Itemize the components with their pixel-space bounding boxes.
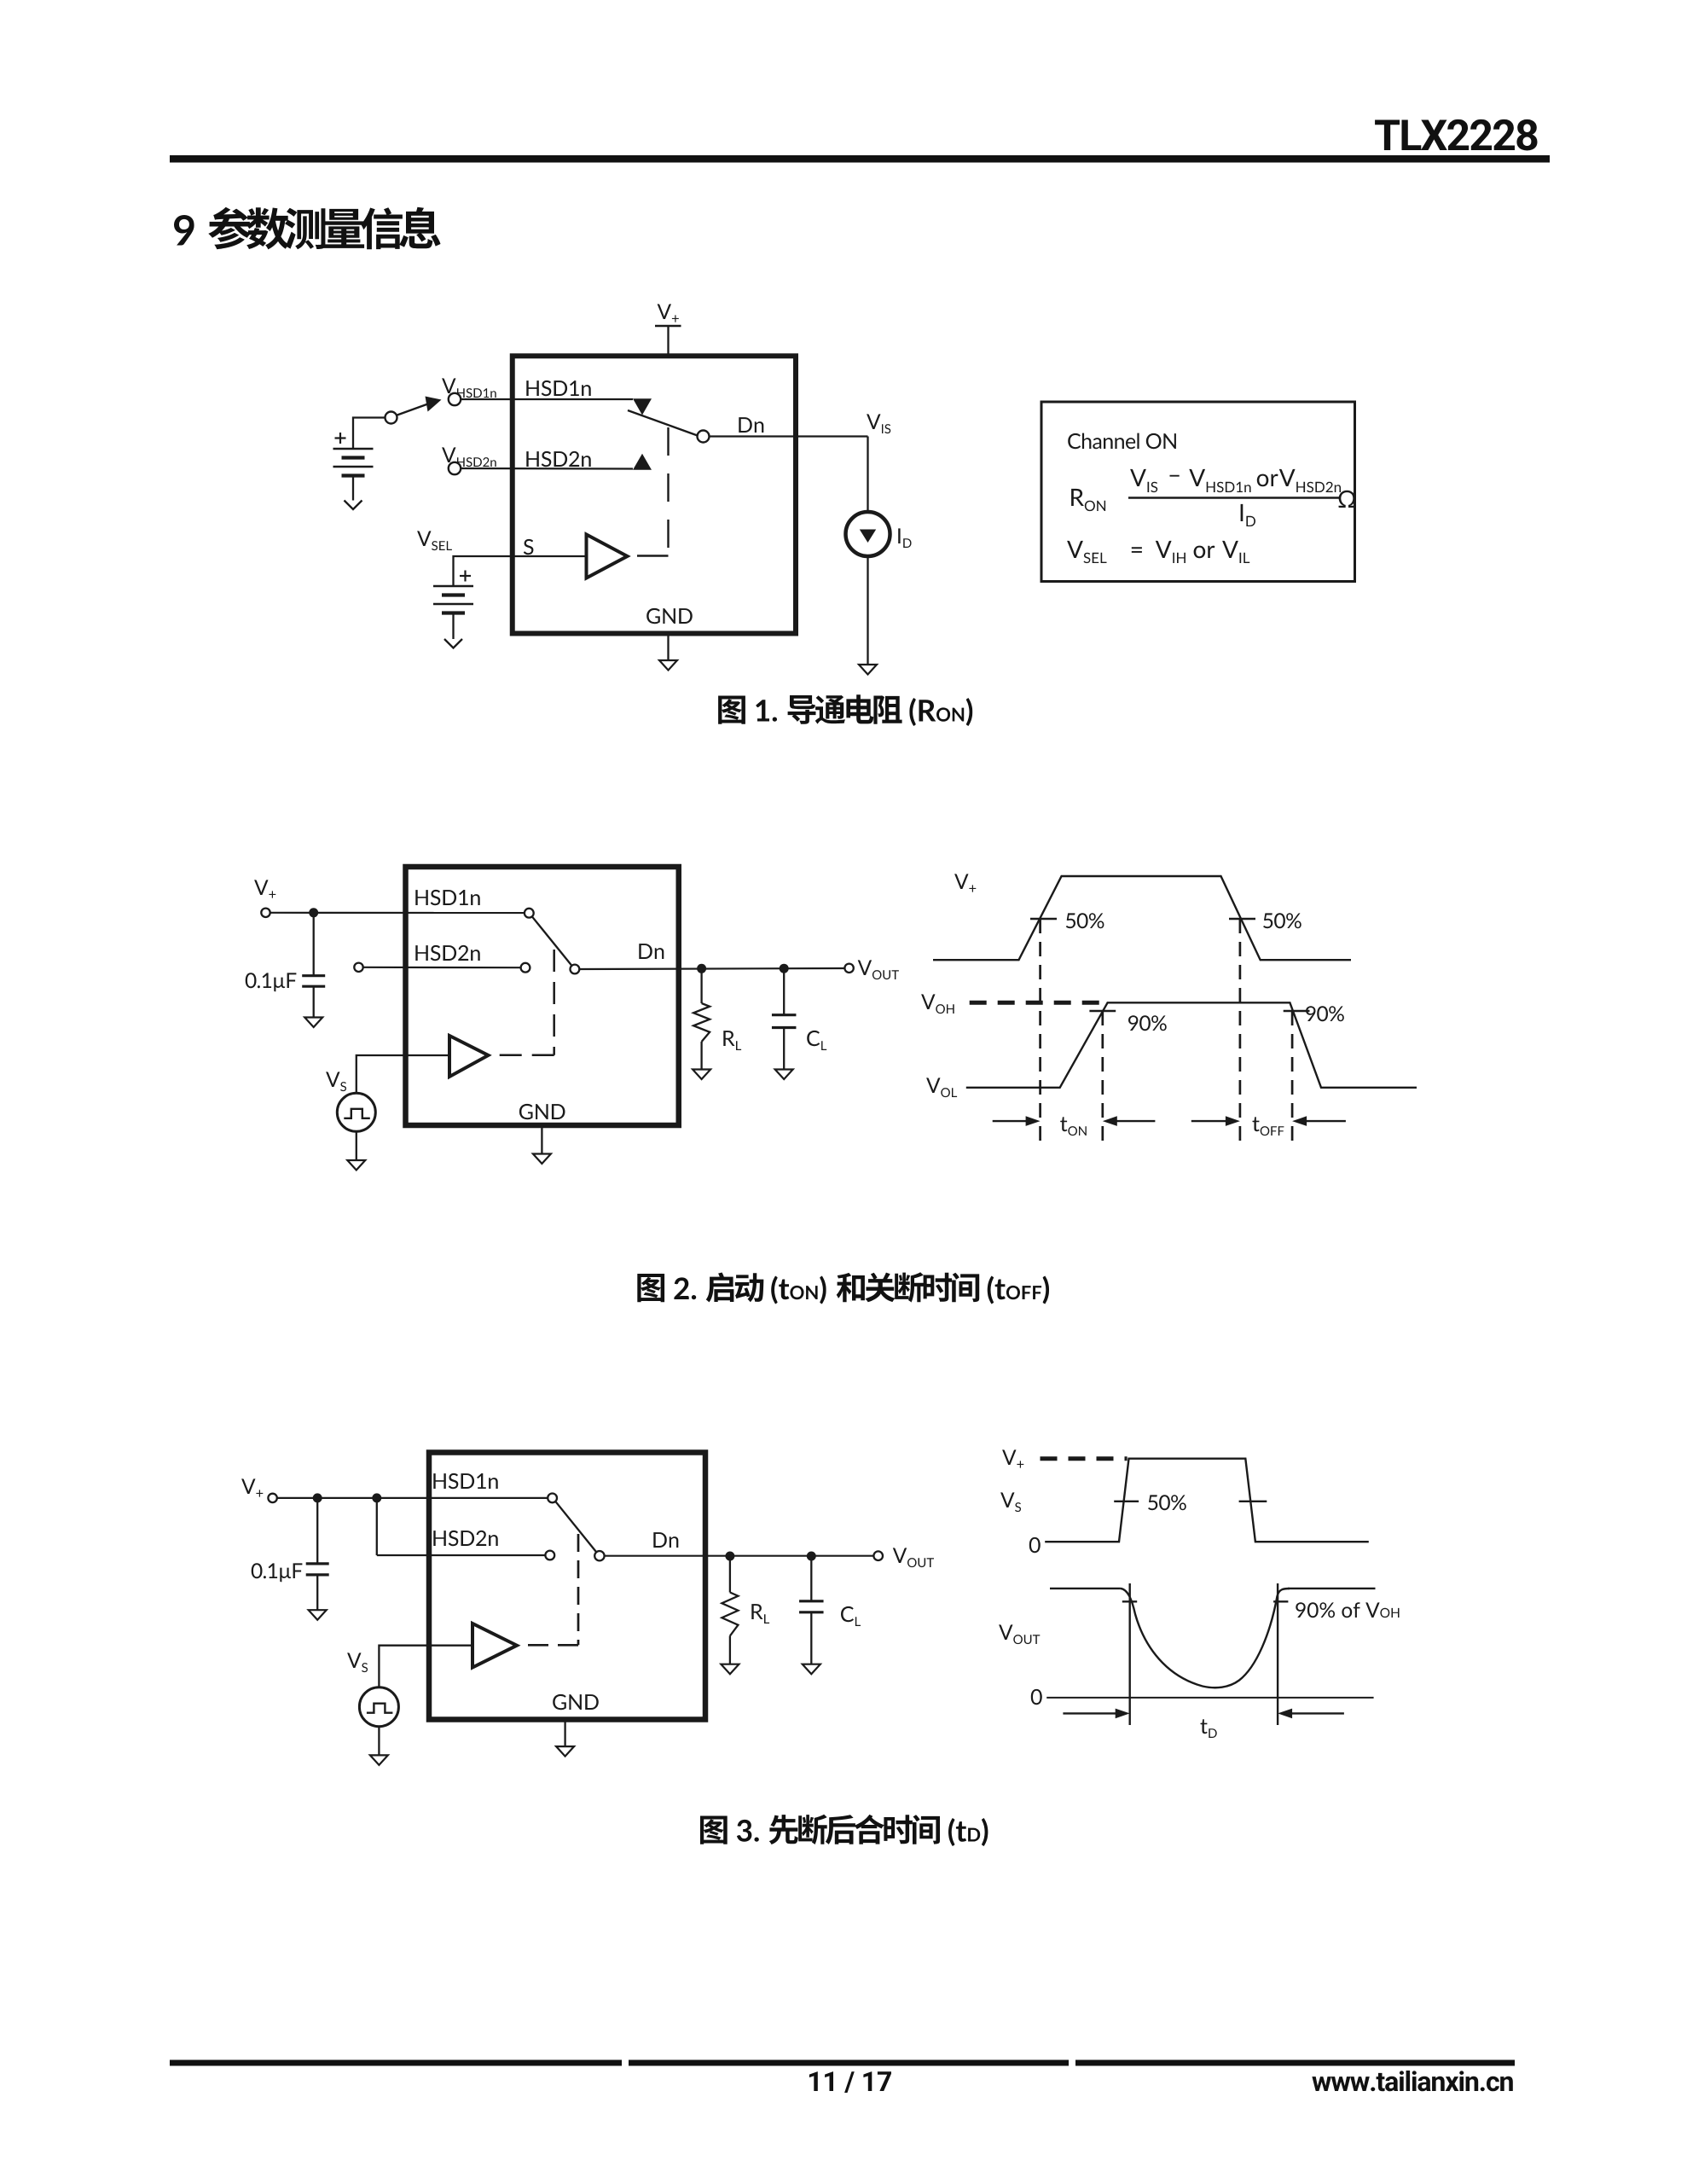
- ground below box (fig2): [533, 1154, 551, 1165]
- caption figure 2: [637, 1272, 1049, 1304]
- pulse source VS circle (fig2): [337, 1093, 375, 1131]
- ground below VS (fig2): [347, 1160, 365, 1170]
- wire VS to buffer (fig3): [379, 1646, 472, 1687]
- dashed actuator horizontal (fig2): [493, 1054, 554, 1056]
- ground below current source: [859, 665, 877, 675]
- footer rule segment 3: [1075, 2060, 1515, 2066]
- tD arrow right (fig3): [1290, 1712, 1344, 1714]
- marker line left (fig3): [1128, 1583, 1130, 1725]
- ground below capacitor (fig2): [304, 1018, 322, 1028]
- switch contact circle HSD2n (fig2): [521, 963, 530, 973]
- wire HSD2n line (fig3): [377, 1554, 546, 1556]
- label VHSD2n: [442, 447, 496, 467]
- resistor RL (fig3): [722, 1593, 738, 1636]
- wire V+ to HSD1n contact (fig3): [277, 1497, 548, 1499]
- ground below RL (fig2): [693, 1070, 710, 1080]
- terminal circle HSD2n open (fig2): [354, 963, 362, 972]
- label VS (fig3): [347, 1653, 368, 1672]
- wire node to RL (fig3): [729, 1556, 731, 1593]
- text 50% falling (fig2): [1263, 913, 1301, 928]
- wire RL to ground (fig2): [700, 1042, 702, 1070]
- pin label HSD1n (fig1): [526, 380, 590, 396]
- fraction bar: [1128, 497, 1340, 499]
- VOUT high right segment (fig3): [1288, 1588, 1376, 1589]
- IC box U1 (figure 1): [513, 356, 796, 633]
- pin label HSD2n (fig2): [415, 945, 479, 961]
- buffer amplifier (fig1): [587, 535, 628, 578]
- dashed marker line 4 (fig2): [1291, 1011, 1294, 1146]
- terminal circle VHSD2n: [449, 462, 461, 474]
- label 0.1uF (fig3): [252, 1563, 303, 1582]
- switch contact circle HSD1n (fig2): [525, 909, 534, 918]
- wire junction down to HSD2n (fig3): [376, 1498, 378, 1555]
- formula RON: [1071, 489, 1105, 511]
- zero label top (fig3): [1029, 1537, 1041, 1553]
- label VHSD1n: [442, 378, 496, 398]
- label V+ (fig3): [241, 1478, 263, 1496]
- switch contact circle HSD1n (fig3): [548, 1494, 557, 1503]
- wire node to CL (fig2): [783, 968, 785, 1015]
- label tON (fig2): [1060, 1117, 1087, 1136]
- VS waveform trace (fig3): [1045, 1459, 1369, 1542]
- wire CL to ground (fig3): [810, 1612, 812, 1664]
- junction node RL (fig3): [725, 1552, 734, 1561]
- zero label bottom (fig3): [1031, 1689, 1042, 1705]
- text 90% of VOH (fig3): [1296, 1602, 1399, 1618]
- text 50% (fig3): [1148, 1495, 1186, 1510]
- terminal circle V+ (fig2): [261, 909, 270, 917]
- marker line right (fig3): [1277, 1583, 1278, 1725]
- tick 90% right (fig3): [1273, 1600, 1288, 1602]
- VOUT high left segment (fig3): [1050, 1588, 1121, 1589]
- header rule: [170, 155, 1550, 163]
- switch pivot circle (fig1): [698, 431, 710, 443]
- capacitor CL (fig3): [799, 1600, 824, 1602]
- dashed actuator horizontal (fig3): [520, 1644, 578, 1647]
- wire RL to ground (fig3): [729, 1636, 731, 1664]
- wire Dn to VOUT (fig3): [605, 1555, 874, 1557]
- pin label GND (fig1): [646, 608, 693, 624]
- tOFF arrow left (fig2): [1191, 1120, 1227, 1122]
- ground below RL (fig3): [721, 1664, 739, 1675]
- ground below CL (fig2): [775, 1070, 793, 1080]
- switch contact triangle HSD2n (fig1): [633, 454, 652, 470]
- output waveform trace (fig2): [966, 1002, 1417, 1088]
- terminal circle VOUT (fig3): [873, 1551, 883, 1560]
- label RL (fig2): [723, 1031, 741, 1050]
- footer rule segment 1: [170, 2060, 622, 2066]
- V+ supply label (fig1): [658, 304, 679, 322]
- battery B2 (fig1): [433, 585, 473, 587]
- tick 50% falling (fig2): [1229, 918, 1255, 920]
- V+ dashed level (fig3): [1041, 1456, 1128, 1461]
- switch pivot circle (fig2): [571, 965, 580, 974]
- capacitor 0.1uF (fig2): [302, 974, 325, 977]
- wire GND pin (fig3): [564, 1720, 565, 1747]
- label ID (fig1): [898, 528, 911, 548]
- caption figure 1: [718, 694, 972, 726]
- dashed marker line 2 (fig2): [1101, 1011, 1104, 1146]
- dashed marker line 1 (fig2): [1039, 919, 1041, 1146]
- label 0.1uF (fig2): [246, 973, 297, 991]
- formula VSEL = VIH or VIL: [1067, 541, 1249, 563]
- pin label HSD2n (fig1): [526, 451, 590, 467]
- section heading 9 参数测量信息: [174, 207, 441, 250]
- junction node HSD2n feed (fig3): [372, 1493, 381, 1502]
- wire capacitor to ground (fig2): [313, 986, 315, 1017]
- junction node CL (fig2): [780, 964, 789, 973]
- dashed actuator elbow (fig1): [637, 555, 669, 556]
- current source arrow (fig1): [860, 530, 876, 543]
- wire node to capacitor (fig3): [316, 1498, 318, 1564]
- label VS (fig2): [326, 1072, 346, 1091]
- wire battery B1 to ground: [352, 476, 354, 501]
- wire Dn to VIS node (fig1): [710, 435, 868, 437]
- junction node cap (fig3): [313, 1493, 322, 1502]
- text 90% falling (fig2): [1306, 1006, 1344, 1021]
- current source ID circle (fig1): [846, 512, 890, 556]
- junction node V+/cap (fig2): [309, 908, 318, 917]
- pulse source VS circle (fig3): [359, 1687, 398, 1727]
- ground below battery B1: [345, 501, 362, 510]
- wire HSD2n stub (fig2): [363, 967, 521, 969]
- ground below box (fig1): [659, 660, 677, 671]
- timing label VS (fig3): [1000, 1492, 1021, 1512]
- wire current source to ground: [867, 555, 868, 665]
- wire VIS down to current source: [867, 437, 868, 528]
- tick 50% rising (fig2): [1030, 918, 1057, 920]
- IC box U3 (figure 3): [429, 1453, 705, 1720]
- wire GND pin (fig1): [667, 636, 669, 661]
- switch contact triangle HSD1n (fig1): [633, 398, 652, 415]
- wire VHSD2n to contact (fig1): [461, 468, 633, 470]
- junction node CL (fig3): [807, 1552, 816, 1561]
- switch pole circle (fig1 external): [386, 412, 397, 424]
- pin label HSD1n (fig2): [415, 890, 479, 905]
- buffer amplifier (fig2): [449, 1036, 489, 1077]
- junction node RL (fig2): [697, 964, 706, 973]
- pulse source symbol (fig2): [344, 1109, 370, 1118]
- wire VS to ground (fig2): [356, 1131, 357, 1160]
- timing label V+ (fig2): [954, 874, 976, 892]
- label RL (fig3): [751, 1604, 769, 1623]
- VOUT dip curve (fig3): [1121, 1589, 1290, 1687]
- V+ supply bar (fig1): [655, 325, 681, 328]
- pin label Dn (fig2): [639, 944, 664, 959]
- pin label Dn (fig3): [653, 1532, 678, 1548]
- wire node to capacitor (fig2): [313, 913, 315, 976]
- ground below box (fig3): [556, 1746, 574, 1757]
- tick 50% rising (fig3): [1114, 1501, 1139, 1502]
- dashed actuator line (fig1): [667, 427, 669, 551]
- dashed marker line 3 (fig2): [1239, 919, 1242, 1146]
- VOH dashed level line (fig2): [970, 1001, 1106, 1005]
- footer website www.tailianxin.cn: [1312, 2071, 1512, 2091]
- pin label GND (fig2): [519, 1104, 565, 1119]
- wire node to CL (fig3): [810, 1556, 812, 1601]
- dashed actuator vertical (fig3): [577, 1534, 580, 1645]
- switch arm (fig1 internal): [628, 410, 699, 436]
- resistor RL (fig2): [693, 1003, 710, 1042]
- wire V+ stem to box (fig1): [667, 326, 669, 356]
- label V+ (fig2): [254, 880, 275, 897]
- tick 90% falling (fig2): [1284, 1010, 1310, 1012]
- pin label S (fig1): [524, 539, 534, 555]
- footer page number 11 / 17: [809, 2071, 891, 2093]
- terminal circle VOUT (fig2): [844, 964, 853, 973]
- wire V+ to HSD1n contact (fig2): [270, 912, 525, 914]
- pin label HSD2n (fig3): [433, 1531, 497, 1546]
- label VOL (fig2): [926, 1077, 957, 1097]
- label VOUT (fig3): [893, 1548, 934, 1567]
- wire GND pin (fig2): [541, 1128, 542, 1154]
- wire CL to ground (fig2): [783, 1028, 785, 1070]
- ground below capacitor (fig3): [309, 1610, 327, 1620]
- switch contact circle HSD2n (fig3): [545, 1551, 554, 1560]
- wire VS to ground (fig3): [378, 1727, 380, 1756]
- pin label HSD1n (fig3): [433, 1473, 497, 1489]
- label VOUT (fig2): [858, 960, 899, 979]
- wire Dn to VOUT (fig2): [579, 968, 844, 969]
- buffer amplifier (fig3): [472, 1623, 517, 1668]
- switch pivot circle (fig3): [594, 1551, 604, 1560]
- wire VS to buffer (fig2): [357, 1055, 449, 1093]
- switch arm (fig1 external): [397, 404, 429, 415]
- caption figure 3: [700, 1815, 988, 1846]
- wire battery B1 top to switch (fig1): [353, 418, 386, 450]
- formula denominator ID: [1241, 504, 1255, 526]
- timing label V+ (fig3): [1002, 1449, 1023, 1467]
- pin label GND (fig3): [553, 1694, 599, 1710]
- plus sign battery B1: [335, 437, 346, 439]
- switch arrow head toward VHSD1n: [426, 397, 442, 412]
- label CL (fig2): [807, 1031, 826, 1050]
- ground below CL (fig3): [803, 1664, 820, 1675]
- text 90% rising (fig2): [1128, 1015, 1167, 1031]
- wire VHSD1n to switch contact (fig1): [461, 398, 633, 400]
- zero axis line (fig3): [1046, 1697, 1373, 1699]
- footer rule segment 2: [629, 2060, 1069, 2066]
- tOFF arrow right (fig2): [1304, 1120, 1346, 1122]
- plus sign battery B2: [460, 575, 471, 577]
- label tD (fig3): [1201, 1719, 1217, 1738]
- terminal circle V+ (fig3): [268, 1494, 276, 1502]
- dashed actuator vertical (fig2): [553, 950, 555, 1055]
- label VSEL (fig1): [417, 531, 452, 550]
- timing label VOUT (fig3): [999, 1624, 1040, 1644]
- label VOH (fig2): [921, 994, 954, 1014]
- text 50% rising (fig2): [1066, 913, 1104, 928]
- switch arm (fig2): [532, 917, 571, 966]
- tick 90% rising (fig2): [1089, 1010, 1116, 1012]
- formula numerator VIS - VHSD1n or VHSD2n: [1130, 469, 1341, 492]
- wire capacitor to ground (fig3): [316, 1575, 318, 1610]
- IC box U2 (figure 2): [406, 867, 679, 1125]
- tick 50% falling (fig3): [1239, 1501, 1267, 1502]
- tick 90% left (fig3): [1122, 1600, 1137, 1602]
- supply waveform trace (fig2): [933, 876, 1351, 960]
- header product title TLX2228: [1375, 119, 1537, 151]
- wire node to RL (fig2): [700, 968, 702, 1003]
- ground below battery B2: [444, 639, 462, 648]
- capacitor CL (fig2): [772, 1014, 797, 1016]
- pin label Dn (fig1): [739, 417, 763, 433]
- wire battery B2 to ground: [452, 613, 454, 640]
- switch arm (fig3): [556, 1501, 597, 1552]
- Channel ON note box (fig1): [1041, 402, 1355, 582]
- wire VSEL to S pin (fig1): [454, 556, 587, 586]
- ground below VS (fig3): [370, 1755, 388, 1765]
- tD arrow left (fig3): [1063, 1712, 1117, 1714]
- battery B1 (fig1): [333, 448, 374, 450]
- label tOFF (fig2): [1253, 1117, 1284, 1136]
- formula ohm symbol: [1339, 491, 1356, 508]
- label VIS (fig1): [867, 414, 890, 433]
- pulse source symbol (fig3): [367, 1704, 393, 1713]
- tON arrow left (fig2): [993, 1120, 1028, 1122]
- terminal circle VHSD1n: [449, 393, 461, 405]
- capacitor 0.1uF (fig3): [306, 1562, 329, 1565]
- label CL (fig3): [841, 1606, 861, 1626]
- tON arrow right (fig2): [1115, 1120, 1155, 1122]
- text Channel ON: [1068, 433, 1176, 450]
